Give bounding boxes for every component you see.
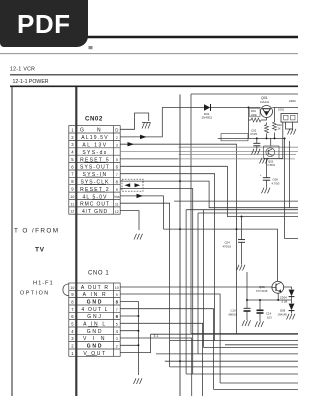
CNO1 pin2 gnd stub — [120, 344, 138, 346]
wire pin5 gray long — [120, 158, 178, 160]
wire rail tap to R01 — [248, 108, 250, 139]
resistor R01 zigzag — [251, 118, 261, 122]
bottom bus L8 — [220, 382, 298, 384]
wire Q02 feed — [270, 138, 272, 146]
svg-text:100E: 100E — [251, 113, 257, 117]
ground G6 C04 — [237, 265, 246, 271]
svg-text:10: 10 — [70, 286, 74, 290]
svg-text:T O /FROM: T O /FROM — [14, 228, 60, 235]
bottom bus extra — [225, 344, 298, 346]
svg-text:CNO 1: CNO 1 — [88, 271, 109, 277]
svg-text:GND: GND — [87, 329, 104, 335]
svg-text:3: 3 — [116, 143, 118, 147]
svg-text:R02: R02 — [277, 123, 282, 127]
svg-text:2: 2 — [71, 344, 74, 349]
svg-text:8: 8 — [116, 179, 119, 184]
wire rail after diode D01 — [211, 107, 261, 109]
svg-text:6: 6 — [116, 314, 119, 319]
svg-text:Q02: Q02 — [268, 160, 274, 164]
wire Q02 right hook — [279, 123, 283, 159]
svg-text:7: 7 — [116, 308, 118, 312]
wire up to ground from H300 — [246, 272, 248, 300]
svg-text:5: 5 — [116, 323, 118, 327]
PDF badge — [0, 0, 88, 47]
bottom bus L2 — [170, 340, 298, 342]
svg-text:3: 3 — [71, 336, 74, 341]
svg-text:KTC3198: KTC3198 — [256, 289, 268, 293]
CNO1 pin5 wire — [120, 323, 202, 396]
wire collector feed H229 — [164, 229, 278, 281]
capacitor C10 — [229, 308, 251, 316]
svg-text:GND: GND — [87, 300, 104, 306]
bottom bus L6 — [170, 366, 298, 368]
CNO1 pin7 wire — [120, 309, 213, 390]
wire pin10 AL5.0V — [120, 196, 163, 229]
svg-text:10: 10 — [115, 286, 119, 290]
CNO1 pin1 V OUT wire — [120, 334, 150, 352]
capacitor C14 — [257, 310, 273, 319]
diode D01 — [202, 104, 213, 120]
ground G9 C14 — [255, 321, 264, 327]
partially hidden text speck — [89, 46, 93, 49]
wire C04 feeder — [241, 217, 243, 240]
svg-text:G: G — [80, 128, 84, 134]
bottom bus L3 — [204, 347, 298, 349]
wire zener branch — [284, 287, 292, 289]
crossing wire into box C — [186, 209, 298, 211]
svg-text:A IN R: A IN R — [83, 292, 108, 298]
transistor Q01 — [260, 96, 273, 118]
CNO1 pin8 gnd stub — [120, 300, 138, 302]
bottom bus L1 — [151, 333, 299, 335]
ground G11 CNO1 — [134, 378, 143, 384]
IC01 pins to ground — [286, 123, 293, 130]
svg-text:680/16: 680/16 — [229, 313, 238, 317]
inner power section box top — [191, 93, 298, 95]
svg-text:12-1-1 POWER: 12-1-1 POWER — [13, 79, 49, 85]
crossing wire into box B — [198, 212, 298, 214]
svg-text:9: 9 — [71, 292, 74, 297]
long dark vertical net — [179, 95, 181, 396]
wire C08 feed — [266, 158, 268, 177]
ground G4 IC01 — [288, 129, 297, 135]
svg-text:H1-F1: H1-F1 — [33, 281, 54, 287]
resistor R01 label box — [250, 109, 262, 122]
wire H300 — [247, 299, 292, 301]
crossing wire into box A — [174, 200, 298, 202]
resistor R03 — [273, 122, 283, 131]
IC01 regulator box — [278, 99, 298, 122]
CNO1 pin4 gnd stub — [120, 330, 138, 332]
svg-text:4 OUT L: 4 OUT L — [81, 307, 108, 313]
jumper block on H138 — [221, 134, 248, 141]
svg-text:GNJ: GNJ — [87, 314, 102, 320]
svg-text:Q06: Q06 — [259, 285, 265, 289]
svg-text:1: 1 — [71, 127, 74, 132]
bottom bus L7 — [186, 373, 298, 375]
wire R02 top/bottom stubs — [266, 123, 268, 125]
svg-text:6: 6 — [116, 165, 119, 170]
svg-text:8: 8 — [116, 300, 119, 305]
svg-text:2: 2 — [71, 135, 74, 140]
wire Q03 base from CNO1 pin10 — [120, 286, 272, 288]
resistor R02 — [265, 125, 269, 133]
ground G10 D08 — [287, 314, 296, 320]
wire R01 to Q01 base — [261, 118, 267, 120]
svg-text:103: 103 — [267, 315, 272, 319]
capacitor C02 — [250, 129, 260, 146]
svg-text:10: 10 — [70, 195, 74, 199]
svg-text:9: 9 — [71, 187, 74, 192]
scan bar marks in connector rows — [84, 162, 106, 356]
svg-text:6: 6 — [71, 314, 74, 319]
header thick rule — [0, 36, 298, 38]
svg-text:SYS-OUT: SYS-OUT — [80, 165, 110, 171]
connector CNO1 — [63, 271, 120, 357]
svg-text:5.1B: 5.1B — [282, 299, 288, 303]
svg-text:47/25: 47/25 — [250, 132, 257, 136]
bottom bus L9 — [214, 388, 299, 390]
thick vertical bus line — [75, 87, 77, 396]
wire pin1 GND to ground — [120, 113, 149, 129]
transistor Q03 — [256, 281, 284, 293]
svg-text:A OUT R: A OUT R — [81, 285, 109, 291]
svg-text:3 1: 3 1 — [154, 334, 159, 338]
CNO1 pin texts — [70, 285, 118, 357]
svg-text:7: 7 — [71, 307, 74, 312]
svg-text:12: 12 — [70, 210, 74, 214]
ground G3b C08 — [262, 188, 271, 194]
svg-text:3: 3 — [71, 142, 74, 147]
wire rail after Q01 to right edge — [272, 107, 298, 109]
svg-text:CN02: CN02 — [85, 116, 103, 123]
zener ZD04 — [280, 290, 294, 304]
ground G1 pin1 — [142, 123, 151, 129]
wire pin3 AL13V — [120, 144, 236, 334]
svg-text:D08: D08 — [280, 309, 286, 313]
svg-text:SYS-ds: SYS-ds — [82, 150, 107, 156]
svg-text:4.7/50: 4.7/50 — [272, 182, 280, 186]
svg-text:6: 6 — [71, 164, 74, 169]
capacitor C08 — [260, 174, 280, 186]
svg-text:4: 4 — [71, 329, 74, 334]
svg-text:2N4002: 2N4002 — [202, 116, 213, 120]
ground G8 C10 — [242, 320, 251, 326]
wire R03 stubs — [274, 108, 276, 123]
connector CN02 — [69, 116, 120, 215]
svg-text:2: 2 — [116, 136, 118, 140]
wire pin7 SYS-IN — [120, 174, 214, 341]
svg-text:9: 9 — [116, 188, 118, 192]
svg-text:3: 3 — [116, 337, 118, 341]
svg-text:TV: TV — [35, 247, 45, 254]
CNO1 gnd common vertical — [137, 301, 139, 375]
arrow pin2 — [140, 135, 147, 139]
svg-text:AL19.5V: AL19.5V — [81, 135, 109, 141]
svg-text:11: 11 — [115, 203, 119, 207]
arrow pin10 — [137, 194, 144, 198]
svg-text:2: 2 — [116, 345, 118, 349]
svg-text:1N4148: 1N4148 — [278, 312, 288, 316]
svg-text:11: 11 — [71, 202, 75, 206]
ground G12 pin12 — [134, 234, 143, 240]
arrow pin3 — [128, 142, 135, 146]
svg-text:RMC OUT: RMC OUT — [80, 202, 110, 208]
svg-text:5: 5 — [116, 158, 118, 162]
svg-text:7: 7 — [116, 173, 118, 177]
wire right pair vertical — [289, 141, 291, 208]
svg-text:4: 4 — [116, 329, 119, 334]
frame left border — [11, 87, 13, 396]
svg-text:AL 13V: AL 13V — [82, 143, 107, 149]
wire pin11 RMC OUT — [120, 203, 169, 367]
svg-text:V I N: V I N — [83, 336, 107, 342]
transistor Q02 block — [264, 146, 279, 167]
svg-text:D391: D391 — [278, 108, 285, 112]
svg-text:ZD01: ZD01 — [289, 99, 296, 103]
ground symbols — [134, 123, 297, 385]
section rule under 12-1 VCR — [10, 74, 298, 76]
inner power section box left — [190, 94, 192, 334]
CNO1 pin3 V IN wire — [120, 338, 192, 396]
svg-text:8: 8 — [71, 300, 74, 305]
svg-text:KIA431: KIA431 — [260, 100, 270, 104]
CN02 pin texts — [70, 127, 120, 215]
wire C02 stub — [256, 138, 258, 143]
svg-text:12-1 VCR: 12-1 VCR — [10, 67, 35, 73]
bottom bus L4 — [156, 353, 298, 355]
svg-text:4/T GND: 4/T GND — [82, 209, 108, 215]
wire pin12 A/T GND to ground — [120, 211, 139, 230]
svg-text:4: 4 — [71, 150, 74, 155]
svg-text:N: N — [97, 128, 101, 134]
svg-text:1: 1 — [71, 351, 74, 356]
svg-text:5: 5 — [71, 322, 74, 327]
svg-text:8: 8 — [71, 179, 74, 184]
svg-text:K3503: K3503 — [268, 163, 276, 167]
wire power H138 — [218, 137, 285, 139]
svg-text:D: D — [115, 127, 118, 132]
svg-text:+: + — [260, 174, 262, 177]
bottom bus L5 — [165, 360, 298, 362]
wire caps below H300 — [246, 300, 248, 308]
svg-text:12: 12 — [115, 210, 119, 214]
svg-text:R01: R01 — [251, 109, 256, 113]
svg-text:V OUT: V OUT — [83, 351, 106, 357]
CNO1 pin6 gnd stub — [120, 315, 138, 317]
wire pin6 SYS-OUT — [120, 166, 298, 216]
wire pin8 SYS-CLK — [120, 181, 298, 208]
wire right net down corner — [285, 138, 298, 238]
dashed option box with arrows — [122, 179, 143, 191]
header thin gray rule — [0, 53, 298, 55]
ground G3 Q02 — [260, 158, 269, 164]
ground G2 C02 — [252, 149, 261, 155]
svg-text:7: 7 — [71, 172, 74, 177]
svg-text:Vss: Vss — [114, 195, 120, 199]
svg-text:GND: GND — [87, 344, 104, 350]
CNO1 pin9 wire — [120, 294, 220, 383]
wire pin2 AL19.5V up to rail — [120, 108, 204, 137]
svg-text:5: 5 — [71, 157, 74, 162]
svg-text:9: 9 — [116, 293, 118, 297]
svg-text:1K: 1K — [278, 127, 281, 131]
capacitor C04 — [223, 240, 246, 249]
diode D08 — [278, 304, 295, 317]
wire pin4 gray long — [120, 151, 298, 153]
wire pin9 RESET2 — [120, 189, 193, 375]
svg-text:A IN L: A IN L — [83, 322, 107, 328]
inner power section box bottom — [191, 333, 298, 335]
hi-fi option brace — [63, 284, 69, 296]
svg-text:470/16: 470/16 — [223, 245, 232, 249]
section thick rule under 12-1-1 POWER — [10, 85, 298, 87]
wire Q03 emitter down — [277, 293, 279, 300]
svg-text:OPTION: OPTION — [20, 291, 50, 297]
